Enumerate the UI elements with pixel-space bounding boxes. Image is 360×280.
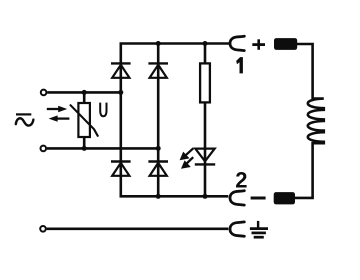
svg-text:2: 2 [235,167,247,192]
